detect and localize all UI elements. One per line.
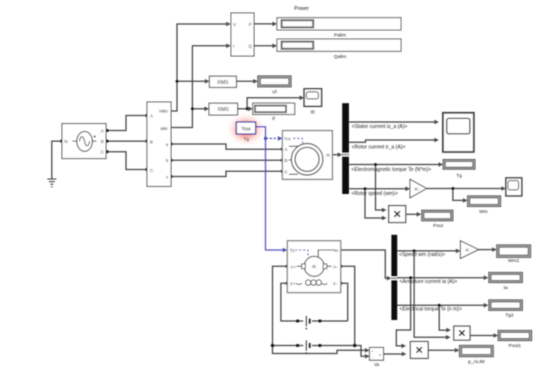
svg-text:A-: A- <box>333 264 338 269</box>
svg-text:<Stator current is_a (A)>: <Stator current is_a (A)> <box>352 124 408 130</box>
svg-text:<Speed wm (rad/s)>: <Speed wm (rad/s)> <box>399 252 445 258</box>
svg-text:v: v <box>379 352 381 357</box>
svg-text:p_ALIM: p_ALIM <box>468 359 485 365</box>
svg-text:IE: IE <box>311 109 316 115</box>
svg-text:Tg: Tg <box>243 136 249 142</box>
svg-text:<Rotor current ir_a (A)>: <Rotor current ir_a (A)> <box>352 144 406 150</box>
svg-text:Va: Va <box>374 362 380 367</box>
svg-text:C: C <box>150 168 153 173</box>
svg-text:F+: F+ <box>290 281 296 286</box>
svg-text:Q: Q <box>248 44 252 49</box>
svg-text:<Armature current ia (A)>: <Armature current ia (A)> <box>400 279 458 285</box>
svg-text:Ia: Ia <box>504 285 508 291</box>
svg-text:<Electromagnetic torque Te (N*: <Electromagnetic torque Te (N*m)> <box>351 167 431 173</box>
svg-text:Palim: Palim <box>334 33 346 39</box>
svg-text:Yaw: Yaw <box>241 126 251 132</box>
svg-text:<Rotor speed (wm)>: <Rotor speed (wm)> <box>351 191 397 197</box>
svg-text:Vf: Vf <box>272 89 277 95</box>
svg-text:RMS: RMS <box>217 80 229 86</box>
svg-text:RMS: RMS <box>218 107 230 113</box>
svg-text:F-: F- <box>333 281 338 286</box>
svg-text:Tg: Tg <box>456 173 462 179</box>
svg-text:Wm: Wm <box>479 209 488 215</box>
svg-text:B: B <box>101 139 104 144</box>
svg-text:TL: TL <box>290 248 296 253</box>
svg-text:<Electrical torque Te (n m)>: <Electrical torque Te (n m)> <box>400 307 462 313</box>
svg-text:-K-: -K- <box>465 248 471 253</box>
svg-text:Tg2: Tg2 <box>505 313 514 319</box>
svg-text:B: B <box>150 140 153 145</box>
svg-text:Pout1: Pout1 <box>509 343 522 349</box>
svg-text:I: I <box>233 44 234 49</box>
svg-text:Pout: Pout <box>433 223 444 229</box>
svg-text:Qalim: Qalim <box>334 54 347 60</box>
svg-text:m: m <box>334 248 338 253</box>
svg-text:A+: A+ <box>290 264 296 269</box>
svg-text:-K-: -K- <box>414 186 420 191</box>
svg-text:Iabc: Iabc <box>160 126 168 131</box>
svg-text:Vabc: Vabc <box>159 109 168 114</box>
svg-text:A: A <box>150 113 153 118</box>
svg-text:Tm: Tm <box>284 136 291 141</box>
svg-text:N: N <box>64 139 67 144</box>
svg-text:m: m <box>326 153 330 158</box>
svg-text:dc: dc <box>312 264 316 269</box>
svg-text:B: B <box>285 158 288 163</box>
svg-text:Power: Power <box>294 6 309 12</box>
svg-text:Wm2: Wm2 <box>508 258 520 264</box>
svg-text:P: P <box>249 22 252 27</box>
